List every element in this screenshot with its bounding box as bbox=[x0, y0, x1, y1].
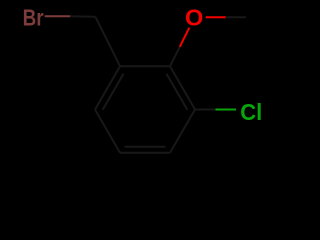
bond Br-CH2 : carbon half (dark) bbox=[70, 15, 95, 18]
svg-text:O: O bbox=[185, 4, 203, 30]
bond C4-C5 bbox=[120, 152, 170, 154]
double bond inner C2=C3 bbox=[167, 74, 188, 110]
bond CH2-C1 (carbon, dark) bbox=[96, 17, 121, 66]
bond O-C2 : oxygen-colored half bbox=[180, 28, 190, 47]
aromatic inner double-bond lines bbox=[103, 74, 188, 147]
bond C3-C4 bbox=[170, 110, 195, 153]
bond C3-Cl : chlorine-colored half bbox=[216, 109, 236, 111]
bond O-C2 : carbon half (dark) bbox=[170, 47, 180, 66]
bond C5-C6 bbox=[95, 110, 120, 153]
svg-text:Br: Br bbox=[23, 5, 44, 31]
bond C1-C2 bbox=[120, 65, 170, 67]
bond C6-C1 bbox=[95, 66, 120, 109]
bond C2-C3 bbox=[170, 66, 195, 109]
svg-text:Cl: Cl bbox=[240, 99, 262, 125]
bond O-CH3 : carbon half (dark) bbox=[226, 16, 246, 18]
bond Br-CH2 : Br-colored half bbox=[45, 15, 71, 17]
bond C3-Cl : carbon half (dark) bbox=[195, 109, 216, 111]
double bond inner C4=C5 bbox=[125, 146, 166, 148]
double bond inner C6=C1 bbox=[103, 74, 124, 110]
benzene ring outer bonds bbox=[95, 66, 195, 153]
bond O-CH3 : oxygen-colored half bbox=[206, 16, 226, 18]
